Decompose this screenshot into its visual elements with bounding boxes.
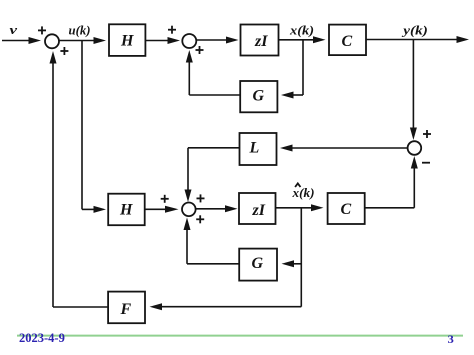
svg-text:C: C <box>341 201 352 218</box>
wire H2 to S3 <box>145 206 179 213</box>
block zI2 <box>239 193 276 224</box>
sign plus F into S1 <box>60 47 68 55</box>
wire G1 to S2 <box>186 50 240 95</box>
svg-text:v: v <box>10 22 18 37</box>
wire L to S3 <box>185 148 240 202</box>
sign plus G1 into S2 <box>196 46 204 54</box>
block F <box>108 292 145 324</box>
wire xhat branch down to G2 and F <box>150 208 302 310</box>
svg-text:u(k): u(k) <box>69 23 91 38</box>
svg-text:F: F <box>120 301 132 318</box>
svg-text:x(k): x(k) <box>291 185 314 200</box>
block C2 <box>328 193 365 224</box>
wire S4 to L <box>280 145 408 152</box>
sign plus v into S1 <box>38 26 46 34</box>
svg-text:3: 3 <box>448 332 454 346</box>
svg-text:G: G <box>252 255 264 272</box>
sign plus y(k) into S4 <box>423 130 431 138</box>
hat accent of xhat(k) <box>295 183 300 187</box>
svg-text:y(k): y(k) <box>401 23 428 38</box>
svg-text:G: G <box>253 88 265 105</box>
svg-text:C: C <box>342 33 353 50</box>
svg-text:2023-4-9: 2023-4-9 <box>19 331 65 345</box>
svg-text:H: H <box>120 32 134 49</box>
wire S2 to zI1 <box>196 37 238 44</box>
block H2 <box>108 194 145 226</box>
wire u(k) branch down to H2 <box>82 41 106 213</box>
sign minus C2 into S4 <box>422 162 430 164</box>
wire zI2 to C2 with xhat branch node <box>276 204 324 211</box>
wire C2 up to S4 <box>365 156 418 208</box>
block C1 <box>329 25 366 55</box>
summing junction S2 <box>182 34 196 48</box>
sign plus L into S3 <box>197 194 205 202</box>
summing junction S4 <box>408 141 422 155</box>
sign plus H1 into S2 <box>168 26 176 34</box>
wire y(k) branch down to S4 <box>410 40 417 141</box>
sign plus G2 into S3 <box>196 215 204 223</box>
svg-text:x(k): x(k) <box>289 23 314 38</box>
block G1 <box>240 81 277 112</box>
svg-text:zI: zI <box>254 33 268 50</box>
wire v input <box>2 37 41 44</box>
summing junction S3 <box>182 203 196 217</box>
footer divider line <box>17 335 463 337</box>
wire x(k) branch down to G1 <box>281 40 303 99</box>
wire S3 to zI2 <box>196 205 238 212</box>
wire C1 to y(k) output <box>366 36 469 43</box>
summing junction S1 <box>45 34 59 48</box>
svg-text:zI: zI <box>252 202 266 219</box>
svg-text:L: L <box>249 139 260 156</box>
block zI1 <box>241 25 279 56</box>
block L <box>240 133 277 165</box>
wire zI1 to C1 with x(k) branch node <box>279 36 326 43</box>
svg-text:H: H <box>119 202 133 219</box>
block H1 <box>109 24 145 56</box>
sign plus H2 into S3 <box>161 195 169 203</box>
wire H1 to S2 <box>145 37 180 44</box>
wire F to S1 <box>50 51 109 307</box>
wire G2 to S3 <box>184 218 240 264</box>
block G2 <box>239 249 277 281</box>
wire S1 to H1 <box>59 37 106 44</box>
